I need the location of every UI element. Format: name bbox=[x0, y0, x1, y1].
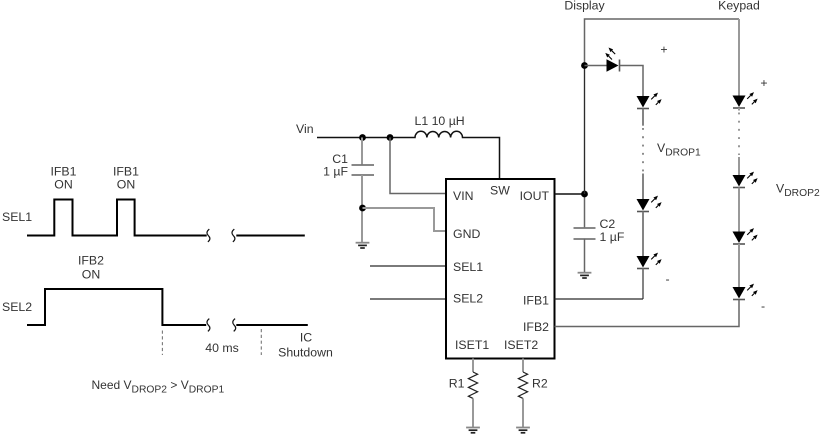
svg-text:+: + bbox=[760, 76, 767, 90]
svg-text:IFB1: IFB1 bbox=[113, 165, 139, 179]
svg-text:ON: ON bbox=[117, 178, 135, 192]
svg-text:-: - bbox=[761, 299, 765, 313]
svg-text:+: + bbox=[660, 43, 667, 57]
svg-text:ISET1: ISET1 bbox=[455, 338, 489, 352]
svg-text:-: - bbox=[665, 272, 669, 286]
svg-text:Vin: Vin bbox=[296, 122, 314, 136]
svg-text:IC: IC bbox=[300, 331, 312, 345]
svg-text:SW: SW bbox=[490, 184, 510, 198]
svg-text:L1 10 µH: L1 10 µH bbox=[415, 114, 465, 128]
svg-text:VIN: VIN bbox=[453, 189, 474, 203]
svg-text:SEL1: SEL1 bbox=[2, 210, 32, 224]
svg-text:IFB2: IFB2 bbox=[78, 254, 104, 268]
svg-text:40 ms: 40 ms bbox=[205, 341, 239, 355]
svg-text:IFB2: IFB2 bbox=[523, 320, 549, 334]
svg-text:Display: Display bbox=[564, 0, 605, 13]
svg-text:R1: R1 bbox=[449, 377, 465, 391]
svg-text:1 µF: 1 µF bbox=[323, 165, 348, 179]
svg-text:IOUT: IOUT bbox=[520, 189, 550, 203]
svg-text:ISET2: ISET2 bbox=[504, 338, 538, 352]
svg-text:SEL2: SEL2 bbox=[453, 292, 483, 306]
svg-text:1 µF: 1 µF bbox=[600, 230, 625, 244]
svg-text:IFB1: IFB1 bbox=[523, 294, 549, 308]
svg-text:ON: ON bbox=[82, 268, 100, 282]
svg-text:C2: C2 bbox=[600, 217, 616, 231]
svg-text:SEL2: SEL2 bbox=[2, 300, 32, 314]
svg-text:Keypad: Keypad bbox=[718, 0, 760, 13]
svg-text:Shutdown: Shutdown bbox=[278, 346, 333, 360]
svg-text:GND: GND bbox=[453, 227, 480, 241]
svg-text:ON: ON bbox=[54, 178, 72, 192]
svg-text:SEL1: SEL1 bbox=[453, 260, 483, 274]
svg-text:R2: R2 bbox=[532, 377, 548, 391]
svg-text:IFB1: IFB1 bbox=[51, 165, 77, 179]
